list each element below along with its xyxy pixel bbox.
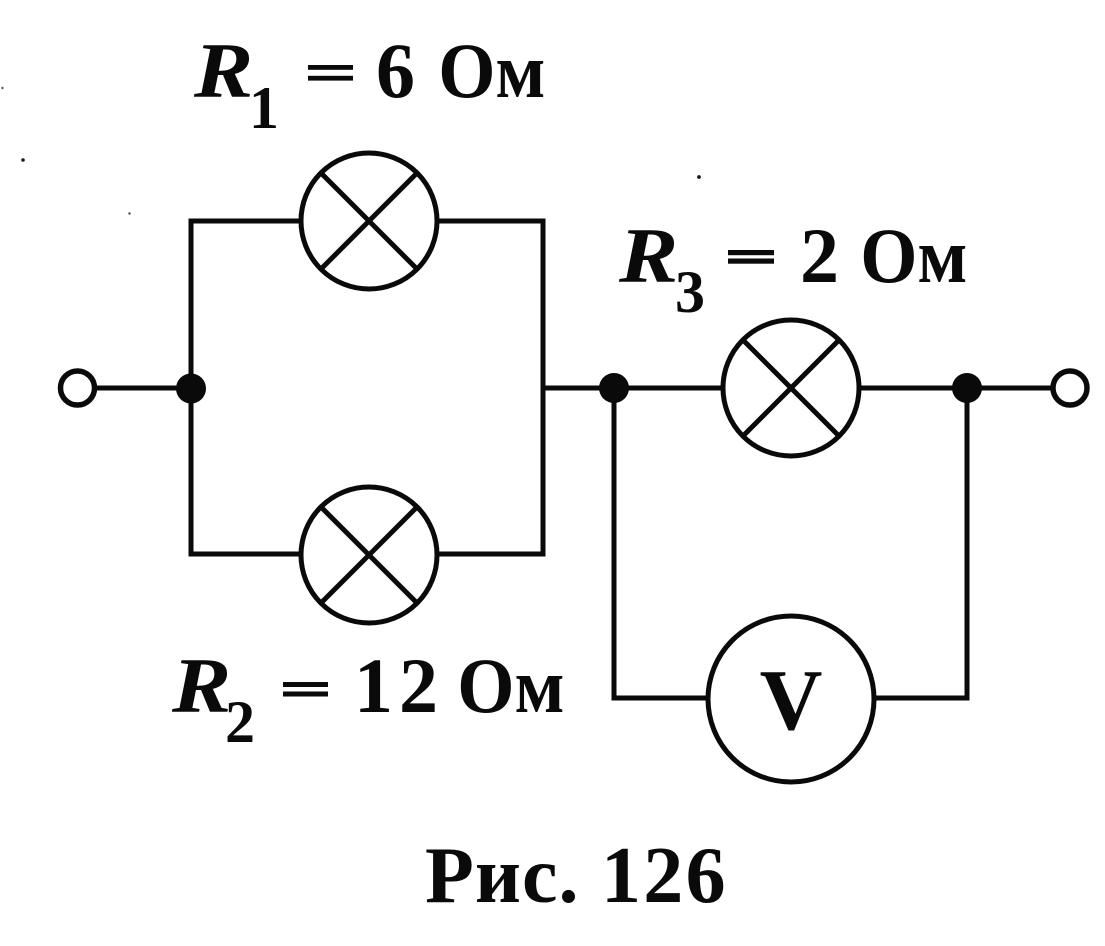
terminal right <box>1053 371 1087 405</box>
wire voltmeter branch <box>614 388 967 698</box>
svg-text:2: 2 <box>225 689 255 755</box>
svg-text:126: 126 <box>601 832 728 920</box>
node B junction dot <box>599 373 629 403</box>
node C junction dot <box>952 373 982 403</box>
svg-text:Ом: Ом <box>457 643 564 729</box>
svg-text:2: 2 <box>399 642 438 729</box>
svg-text:1: 1 <box>249 75 279 141</box>
svg-text:3: 3 <box>675 259 705 325</box>
svg-text:Ом: Ом <box>438 28 545 114</box>
node A junction dot <box>176 374 206 404</box>
lamp R1 <box>301 153 437 289</box>
svg-text:R: R <box>618 213 678 300</box>
svg-text:R: R <box>193 28 253 115</box>
voltmeter V1 <box>708 616 874 782</box>
svg-text:V: V <box>760 651 823 748</box>
lamp R3 <box>723 320 859 456</box>
svg-text:2: 2 <box>800 212 839 299</box>
wire left terminal to node A <box>94 386 191 391</box>
wire middle row node B to right terminal <box>543 386 1053 391</box>
svg-text:R: R <box>171 643 231 730</box>
label R3 = 2 Om <box>618 212 968 325</box>
svg-text:6: 6 <box>376 27 415 114</box>
label R1 = 6 Om <box>193 27 546 141</box>
svg-text:Ом: Ом <box>860 213 967 299</box>
terminal left <box>61 371 95 405</box>
lamp R2 <box>301 487 437 623</box>
svg-text:1: 1 <box>354 642 393 729</box>
wire parallel loop R1 R2 <box>191 221 543 554</box>
label R2 = 12 Om <box>171 642 565 755</box>
svg-text:Рис.: Рис. <box>425 832 579 920</box>
